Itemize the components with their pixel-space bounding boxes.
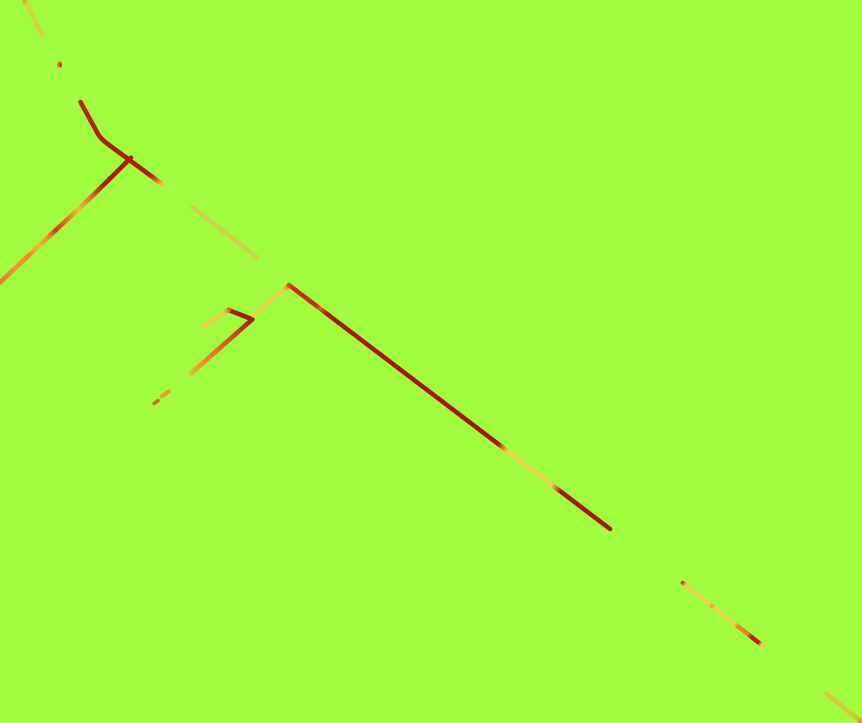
road segment S10: red-to-orange ramp descending left [191, 319, 252, 373]
road dash S11b: small orange-red dash [154, 401, 158, 404]
road segment S6-S7: branch from junction down-left to left edge, orange mottled [0, 158, 131, 283]
road segment S12: yellow ramp ascending to peak of main line [254, 285, 289, 315]
road segment S8: yellow ramp approaching vertex, orange tip on top [203, 310, 230, 327]
road segment S-yellow: mid yellow segment of main diagonal [193, 208, 257, 258]
traffic dot S2: small orange/red congestion blip [57, 61, 62, 67]
road dash S11a: small orange dash [162, 392, 169, 397]
road segment S17: lower-right yellow/orange/red segment [683, 583, 764, 647]
road segment S9: short dark red connector [229, 310, 253, 319]
road segment S18: bottom-right corner yellow segment [827, 694, 862, 723]
road segment S1: short yellow traffic segment, top-left [25, 2, 43, 36]
road segment S3-S4-S5: dark red road descending, bending at elbow, through junction to orange-yellow tip [81, 102, 163, 184]
road segment E: long main diagonal, red / dark red / yellow window [289, 285, 610, 529]
